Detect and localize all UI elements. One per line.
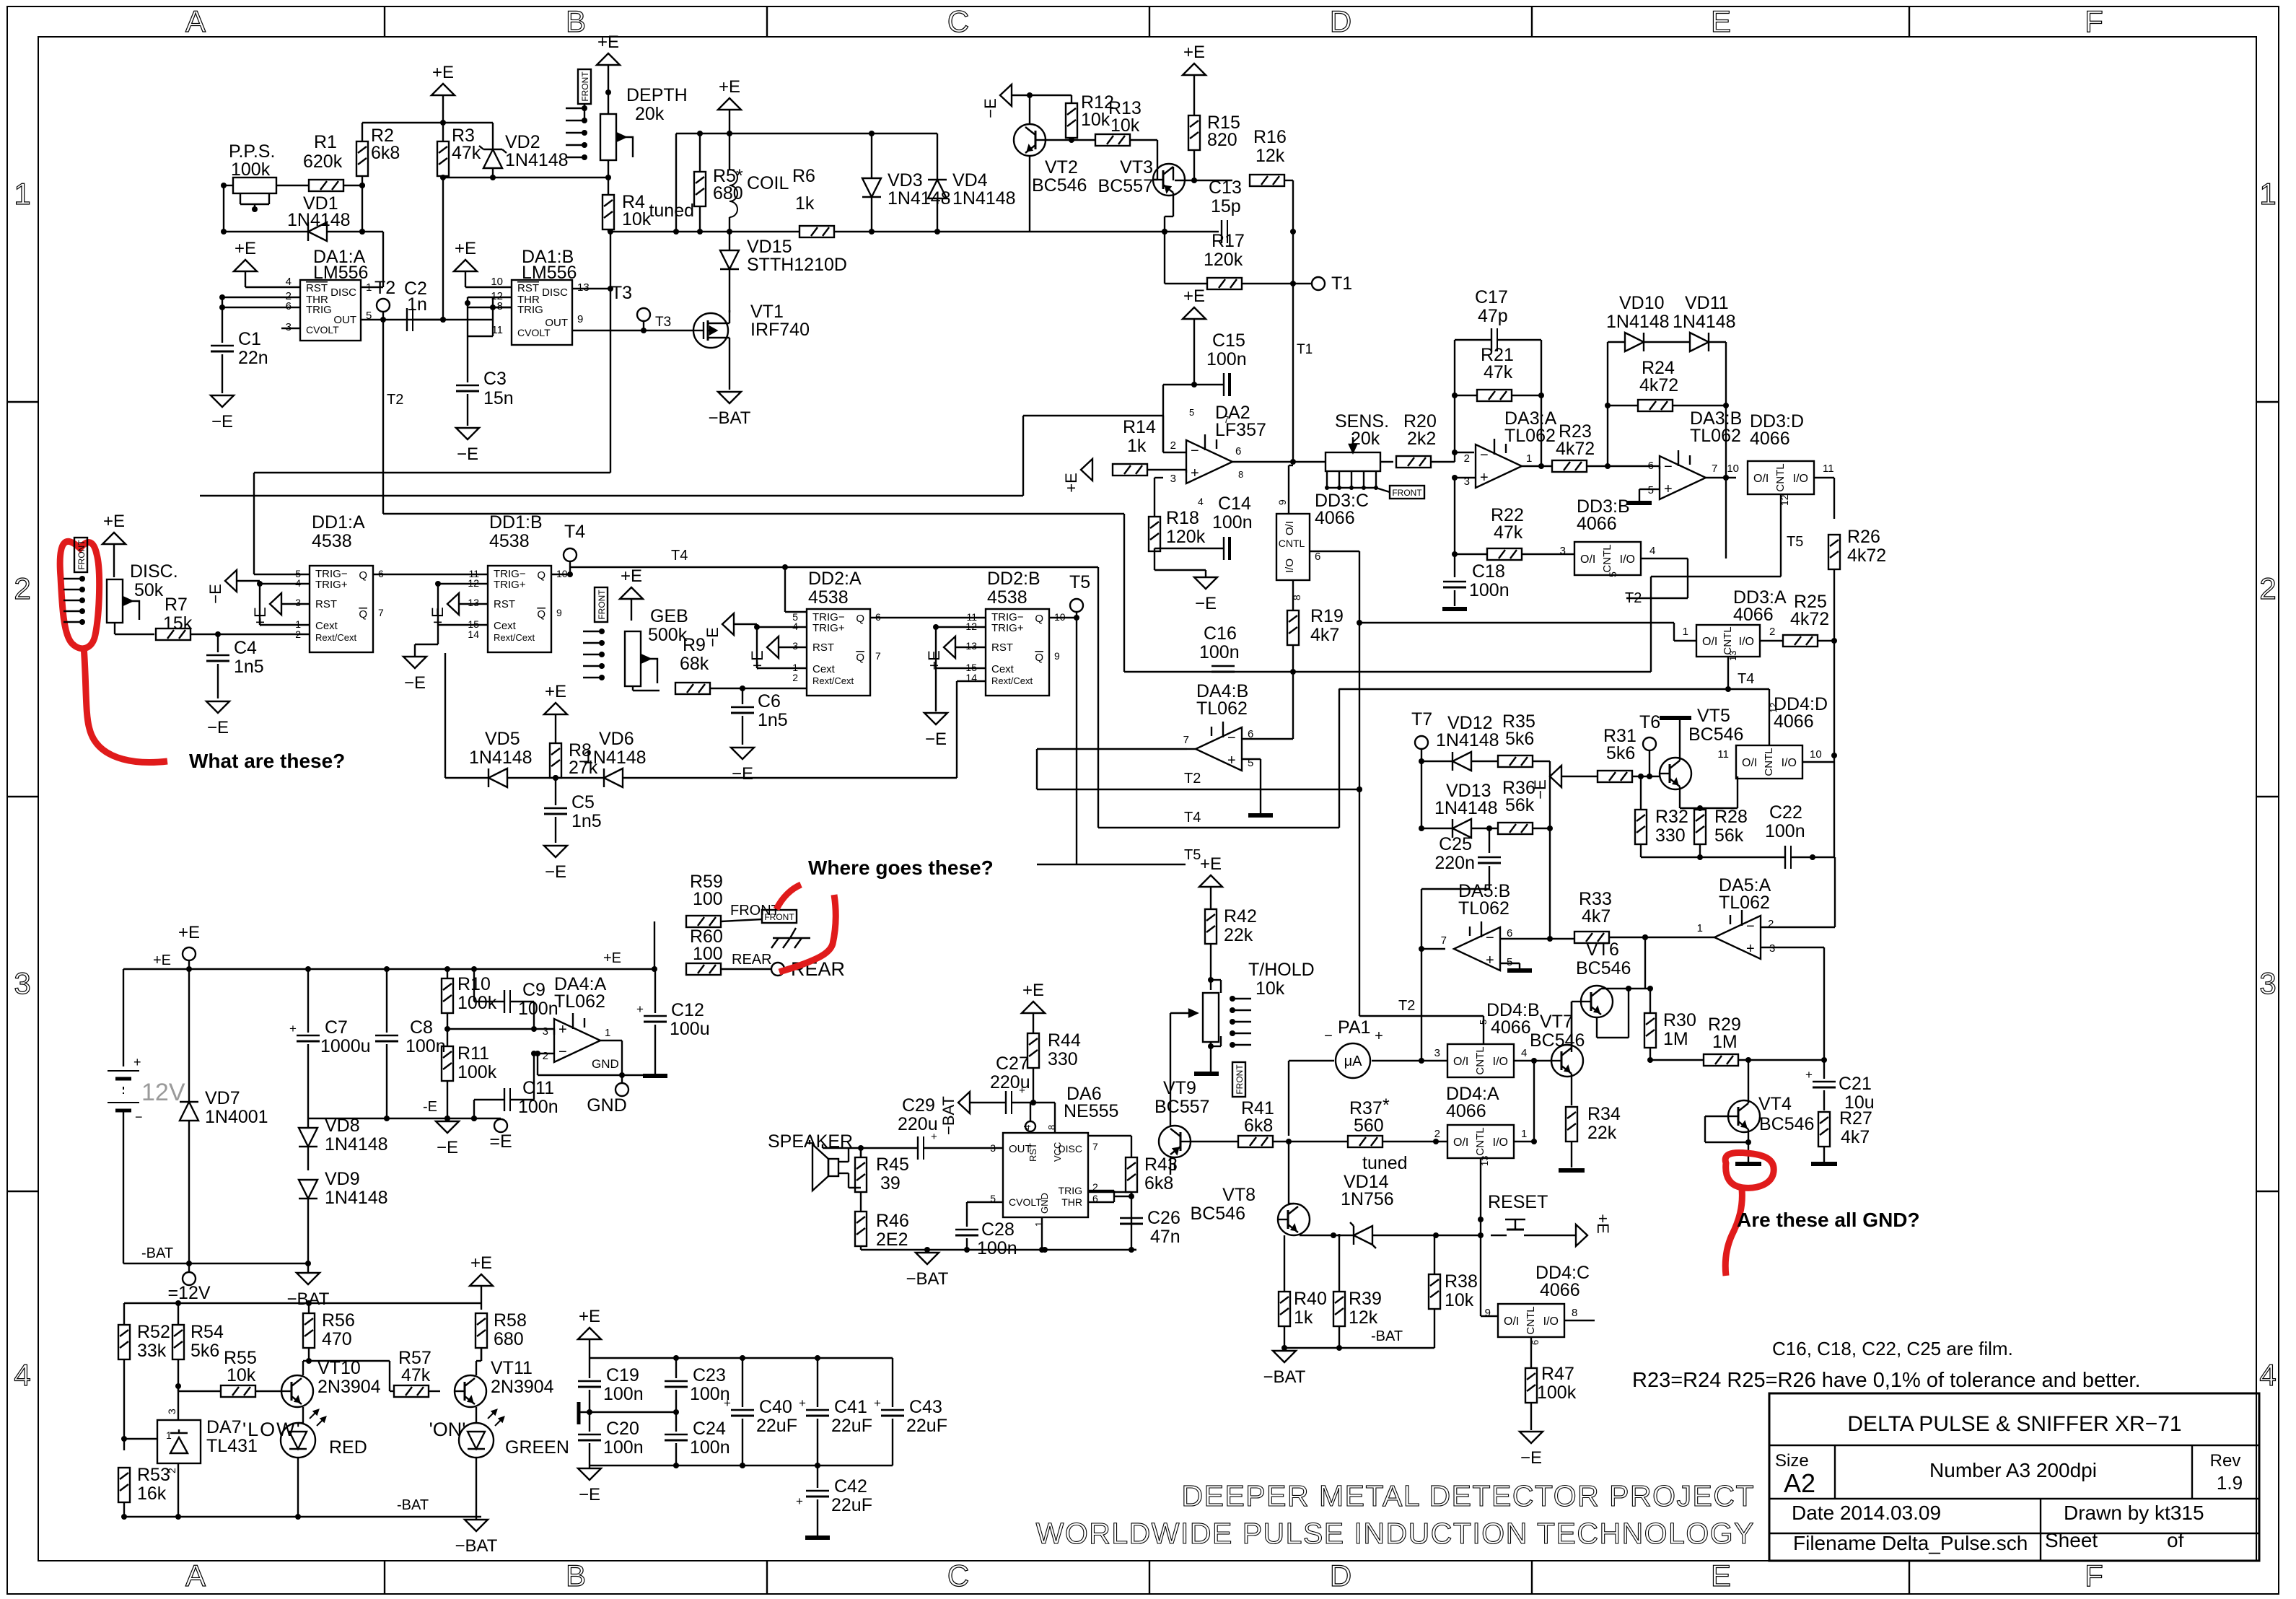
power +E R44 xyxy=(1022,981,1045,1014)
wire xyxy=(1154,551,1155,559)
svg-text:VD15: VD15 xyxy=(747,237,792,257)
power +E DISC xyxy=(102,512,126,577)
svg-text:220n: 220n xyxy=(1434,853,1475,873)
diode VD4 1N4148 xyxy=(928,133,1016,232)
svg-text:R45: R45 xyxy=(876,1155,909,1175)
ground -BAT VT1 xyxy=(709,392,751,428)
capacitor C3 15n xyxy=(456,307,514,426)
label +E wire xyxy=(153,952,171,968)
svg-text:100n: 100n xyxy=(1765,821,1805,841)
connector DISC xyxy=(63,576,85,625)
svg-text:R1: R1 xyxy=(314,132,337,152)
led LOW RED xyxy=(242,1410,325,1458)
opamp DA5:A TL062 xyxy=(1714,875,1771,959)
svg-text:4k7: 4k7 xyxy=(1310,625,1339,645)
wire xyxy=(757,627,807,668)
svg-text:100k: 100k xyxy=(457,1062,497,1082)
power +E R8 xyxy=(544,682,567,743)
transistor VT2 BC546 xyxy=(1014,124,1087,196)
capacitor C28 100n xyxy=(955,1219,1017,1258)
svg-text:THR: THR xyxy=(1061,1196,1082,1208)
svg-text:100n: 100n xyxy=(1206,349,1247,369)
svg-text:100n: 100n xyxy=(406,1036,446,1056)
pins DD4:B xyxy=(1434,1020,1528,1059)
resistor R47 100k xyxy=(1525,1354,1577,1403)
wire DD3C out xyxy=(1310,551,1359,623)
svg-text:7: 7 xyxy=(1712,463,1717,475)
svg-text:47p: 47p xyxy=(1478,306,1508,326)
svg-text:BC546: BC546 xyxy=(1759,1114,1814,1134)
svg-text:Q: Q xyxy=(1035,652,1043,664)
wire T4 long xyxy=(570,548,1098,570)
connector SENS xyxy=(1325,471,1378,490)
speaker SPEAKER xyxy=(768,1131,853,1191)
svg-text:1k: 1k xyxy=(795,193,815,214)
svg-text:R46: R46 xyxy=(876,1211,909,1231)
wire cap rail bottom xyxy=(590,1463,893,1468)
svg-text:10: 10 xyxy=(1810,748,1822,761)
wire DA2 out xyxy=(1232,444,1326,465)
svg-text:BC546: BC546 xyxy=(1032,175,1087,196)
wire +E rail xyxy=(123,966,501,1066)
svg-text:R17: R17 xyxy=(1211,231,1245,251)
svg-text:−E: −E xyxy=(404,673,426,693)
wire spk2 xyxy=(838,1173,861,1188)
wire DA5B out xyxy=(1419,889,1445,952)
svg-text:VT3: VT3 xyxy=(1120,157,1153,178)
resistor R39 12k xyxy=(1333,1234,1382,1328)
svg-text:+E: +E xyxy=(579,1307,600,1326)
resistor R60 100 xyxy=(686,926,723,975)
resistor R5* 680 xyxy=(649,131,743,235)
svg-text:CNTL: CNTL xyxy=(1774,463,1787,491)
svg-text:F: F xyxy=(2085,4,2103,38)
pins DD3:A xyxy=(1683,626,1776,661)
wire xyxy=(1452,475,1476,557)
svg-text:1N4148: 1N4148 xyxy=(583,748,647,768)
IC DA1:B LM556 xyxy=(512,247,577,345)
pins DA1 xyxy=(286,276,372,333)
potentiometer P.P.S. 100k xyxy=(229,141,276,212)
svg-text:1M: 1M xyxy=(1712,1032,1738,1052)
svg-text:68k: 68k xyxy=(680,654,709,674)
svg-text:RESET: RESET xyxy=(1488,1192,1548,1212)
resistor R54 5k6 xyxy=(172,1310,224,1389)
svg-text:47k: 47k xyxy=(401,1365,431,1385)
svg-text:VD11: VD11 xyxy=(1685,293,1729,313)
svg-text:1k: 1k xyxy=(1127,436,1147,456)
wire xyxy=(1571,1142,1572,1168)
svg-text:5: 5 xyxy=(1189,407,1194,418)
IC DD1:A 4538 xyxy=(310,512,373,652)
svg-text:−E: −E xyxy=(457,444,478,464)
wire xyxy=(1587,463,1649,469)
opamp DA4:B TL062 xyxy=(1196,681,1248,771)
wire DA4A xyxy=(534,1029,554,1053)
svg-text:2N3904: 2N3904 xyxy=(317,1377,381,1397)
switch RESET xyxy=(1488,1192,1548,1235)
svg-text:C16, C18, C22, C25 are film.: C16, C18, C22, C25 are film. xyxy=(1772,1338,2013,1359)
svg-text:3: 3 xyxy=(543,1025,548,1038)
potentiometer SENS 20k xyxy=(1326,411,1389,471)
capacitor C9 100n xyxy=(471,966,558,1029)
wire DA2 inputs xyxy=(1148,452,1186,473)
pins DA5:A xyxy=(1697,918,1776,955)
svg-text:330: 330 xyxy=(1048,1049,1078,1069)
svg-text:C26: C26 xyxy=(1147,1208,1180,1228)
svg-text:100n: 100n xyxy=(518,1097,558,1117)
capacitor C11 100n xyxy=(471,1051,558,1121)
label DA3:A xyxy=(1504,408,1557,446)
svg-text:+: + xyxy=(1486,952,1494,968)
svg-text:−: − xyxy=(1227,730,1236,746)
label R26 xyxy=(1847,527,1886,566)
svg-text:RST: RST xyxy=(991,641,1013,654)
svg-text:C16: C16 xyxy=(1204,623,1237,644)
svg-text:Rext/Cext: Rext/Cext xyxy=(812,675,854,686)
red annotation s1 xyxy=(776,885,801,909)
svg-text:DISC: DISC xyxy=(542,286,568,299)
svg-text:+E: +E xyxy=(603,950,621,966)
svg-text:RST: RST xyxy=(315,598,337,610)
wire xyxy=(115,623,154,634)
svg-text:VT8: VT8 xyxy=(1222,1185,1256,1205)
wire xyxy=(676,131,937,232)
resistor R38 10k xyxy=(1429,1235,1478,1348)
label DA7 xyxy=(206,1417,258,1456)
svg-text:1: 1 xyxy=(2259,177,2276,211)
svg-text:3: 3 xyxy=(295,597,301,608)
node T2 xyxy=(374,278,395,320)
svg-text:3: 3 xyxy=(14,966,30,1000)
wire xyxy=(633,686,660,691)
svg-text:DEPTH: DEPTH xyxy=(626,85,688,105)
note tolerance xyxy=(1632,1369,2141,1392)
svg-text:11: 11 xyxy=(1823,463,1834,475)
power +E R42 xyxy=(1199,854,1222,909)
svg-text:BC546: BC546 xyxy=(1191,1204,1245,1224)
resistor R28 56k xyxy=(1694,805,1748,846)
svg-text:BC557: BC557 xyxy=(1098,176,1153,196)
capacitor C16 100n xyxy=(1199,623,1240,672)
svg-text:10: 10 xyxy=(1727,463,1739,475)
wire xyxy=(608,229,1219,235)
wire bottom rail led xyxy=(124,1497,481,1517)
svg-text:5k6: 5k6 xyxy=(1505,729,1534,749)
svg-text:tuned: tuned xyxy=(1362,1153,1408,1173)
svg-text:7: 7 xyxy=(1183,734,1189,746)
svg-text:C43: C43 xyxy=(909,1397,942,1417)
IC DD2:A 4538 xyxy=(807,569,870,696)
svg-text:R38: R38 xyxy=(1445,1271,1478,1292)
front tag SENS xyxy=(1376,486,1424,499)
svg-text:T/HOLD: T/HOLD xyxy=(1248,960,1315,980)
svg-text:Size: Size xyxy=(1775,1451,1809,1471)
svg-text:R39: R39 xyxy=(1349,1289,1382,1309)
svg-text:VT9: VT9 xyxy=(1163,1078,1196,1098)
svg-text:13: 13 xyxy=(965,640,977,652)
svg-text:+: + xyxy=(1746,941,1755,957)
svg-text:VD6: VD6 xyxy=(599,729,634,749)
ground -BAT audio xyxy=(906,1250,949,1289)
svg-text:+E: +E xyxy=(1594,1214,1612,1234)
svg-text:Number A3 200dpi: Number A3 200dpi xyxy=(1929,1459,2097,1481)
svg-text:TL062: TL062 xyxy=(1504,426,1556,446)
capacitor C15 100n sym xyxy=(1194,330,1247,396)
capacitor C27 220u xyxy=(990,1053,1030,1114)
ground -E C3 xyxy=(456,428,479,464)
IC DD1:B 4538 xyxy=(488,512,551,652)
svg-text:C15: C15 xyxy=(1212,330,1245,351)
red annotation text2 xyxy=(1737,1209,1920,1231)
svg-text:DEEPER METAL DETECTOR PROJECT: DEEPER METAL DETECTOR PROJECT xyxy=(1181,1479,1755,1512)
svg-text:+: + xyxy=(558,1022,567,1038)
svg-text:−: − xyxy=(1480,447,1489,463)
svg-text:-BAT: -BAT xyxy=(141,1245,173,1261)
potentiometer DISC 50k xyxy=(107,561,178,623)
resistor R31 5k6 xyxy=(1598,726,1636,782)
svg-text:VT6: VT6 xyxy=(1586,939,1619,960)
svg-text:100n: 100n xyxy=(977,1238,1017,1258)
svg-text:+E: +E xyxy=(455,239,476,258)
svg-text:+E: +E xyxy=(621,566,642,586)
svg-text:100n: 100n xyxy=(1212,512,1253,533)
svg-text:Date 2014.03.09: Date 2014.03.09 xyxy=(1792,1502,1941,1524)
svg-text:−E: −E xyxy=(579,1485,600,1504)
svg-text:4066: 4066 xyxy=(1733,605,1774,625)
ground -E C5 xyxy=(544,846,567,882)
wire xyxy=(858,1145,864,1157)
resistor R57 47k xyxy=(390,1348,440,1397)
resistor R16 12k xyxy=(1250,127,1287,186)
capacitor C19 100n xyxy=(578,1358,644,1412)
wire xyxy=(1191,1141,1238,1142)
svg-text:100k: 100k xyxy=(457,993,497,1013)
wire DD2A trig xyxy=(785,567,807,612)
resistor R23 4k72 xyxy=(1552,421,1595,472)
svg-text:GND: GND xyxy=(592,1057,619,1071)
svg-text:C5: C5 xyxy=(571,792,595,812)
ground -BAT led xyxy=(455,1517,498,1556)
wire bus T5b xyxy=(1037,847,1201,864)
transistor VT4 BC546 xyxy=(1728,1100,1760,1132)
ground C42 xyxy=(805,1536,830,1540)
svg-text:−BAT: −BAT xyxy=(906,1269,949,1289)
wire VT8 down xyxy=(1293,1235,1294,1236)
resistor R20 2k2 xyxy=(1396,456,1431,468)
resistor R53 16k xyxy=(118,1465,170,1520)
diode VD15 STTH1210D xyxy=(720,232,847,312)
label R9 xyxy=(680,635,709,674)
wire xyxy=(608,160,609,195)
svg-text:−: − xyxy=(1324,1028,1333,1044)
svg-text:GREEN: GREEN xyxy=(505,1437,569,1458)
svg-text:2: 2 xyxy=(1464,452,1470,465)
wire PA1 xyxy=(1289,1061,1334,1136)
svg-text:T3: T3 xyxy=(655,315,671,330)
capacitor C2 1n xyxy=(404,279,427,331)
svg-text:Cext: Cext xyxy=(494,620,517,632)
svg-text:16k: 16k xyxy=(137,1484,167,1504)
wire bottom rail audio xyxy=(0,0,1,1)
svg-text:1n: 1n xyxy=(407,294,427,315)
svg-text:+: + xyxy=(799,1396,806,1410)
wire xyxy=(343,183,365,188)
power +E caps xyxy=(578,1307,601,1358)
pins DA6 xyxy=(990,1125,1098,1227)
wire xyxy=(362,120,493,149)
svg-text:6: 6 xyxy=(1235,445,1241,457)
resistor R18 120k xyxy=(1149,478,1163,551)
wire T2 vertical xyxy=(383,320,403,514)
svg-text:−E: −E xyxy=(207,718,229,737)
svg-text:−: − xyxy=(135,1110,143,1124)
power +E xyxy=(431,63,455,123)
svg-text:FRONT: FRONT xyxy=(76,540,87,570)
wire DA7 bottom xyxy=(175,1463,181,1520)
svg-text:TL062: TL062 xyxy=(1458,898,1510,919)
svg-text:2: 2 xyxy=(792,672,798,683)
resistor R19 4k7 xyxy=(1287,606,1344,645)
svg-text:22uF: 22uF xyxy=(831,1495,872,1515)
svg-text:R18: R18 xyxy=(1166,508,1199,528)
front tag GEB xyxy=(595,587,608,622)
wire DA4B xyxy=(1187,672,1293,749)
gnd R34 xyxy=(1559,1168,1585,1173)
inductor COIL xyxy=(727,133,789,235)
svg-text:4: 4 xyxy=(1521,1047,1527,1059)
svg-text:56k: 56k xyxy=(1714,825,1744,846)
svg-text:RST: RST xyxy=(812,641,834,654)
svg-text:R28: R28 xyxy=(1714,807,1748,827)
svg-text:9: 9 xyxy=(1054,650,1060,662)
svg-text:+E: +E xyxy=(1200,854,1222,874)
wire DD4A cntl xyxy=(1478,1158,1484,1222)
svg-text:+: + xyxy=(874,1396,881,1410)
label REAR wire xyxy=(732,952,772,968)
svg-text:I/O: I/O xyxy=(1493,1056,1508,1068)
wire xyxy=(1561,774,1652,779)
svg-text:1N4148: 1N4148 xyxy=(287,210,351,230)
svg-text:T5: T5 xyxy=(1184,847,1201,863)
svg-text:120k: 120k xyxy=(1166,527,1206,547)
svg-text:R40: R40 xyxy=(1294,1289,1327,1309)
svg-text:12k: 12k xyxy=(1349,1307,1378,1328)
svg-text:'LOW': 'LOW' xyxy=(242,1419,302,1440)
svg-text:R52: R52 xyxy=(137,1322,170,1342)
wire spk xyxy=(838,1148,849,1162)
svg-text:C19: C19 xyxy=(606,1365,639,1385)
svg-text:COIL: COIL xyxy=(747,173,789,193)
svg-text:*: * xyxy=(1383,1095,1390,1116)
svg-text:100n: 100n xyxy=(1469,580,1510,600)
svg-text:Drawn by kt315: Drawn by kt315 xyxy=(2064,1502,2204,1524)
wire xyxy=(1431,450,1474,462)
svg-text:C3: C3 xyxy=(483,369,507,389)
power +E batt xyxy=(178,923,200,969)
svg-text:GEB: GEB xyxy=(650,606,688,626)
svg-text:4k72: 4k72 xyxy=(1556,439,1595,459)
svg-text:−: − xyxy=(1191,443,1199,459)
svg-text:I/O: I/O xyxy=(1739,636,1754,648)
red annotation s2 xyxy=(779,895,836,972)
capacitor C29 220u xyxy=(861,1095,1002,1160)
wire DA2 minus from R18 xyxy=(0,0,1,1)
svg-text:2E2: 2E2 xyxy=(876,1230,908,1250)
svg-text:12V: 12V xyxy=(141,1079,185,1106)
svg-text:+E: +E xyxy=(432,63,454,82)
wire xyxy=(1380,461,1393,463)
svg-text:Q: Q xyxy=(359,569,367,582)
svg-text:5: 5 xyxy=(1478,1020,1489,1025)
svg-text:13: 13 xyxy=(577,281,590,294)
potentiometer T/HOLD 10k xyxy=(1203,960,1315,1042)
wire led1b xyxy=(295,1458,301,1520)
capacitor C25 220n xyxy=(1478,825,1501,863)
svg-text:10k: 10k xyxy=(1081,110,1110,130)
wire xyxy=(1130,140,1157,180)
svg-text:−E: −E xyxy=(732,764,753,784)
svg-text:9: 9 xyxy=(577,313,583,325)
wire T2 DD3B xyxy=(1625,577,1688,606)
svg-text:T2: T2 xyxy=(374,278,395,298)
label GREEN xyxy=(505,1437,569,1458)
svg-text:DA7: DA7 xyxy=(206,1417,242,1437)
wire R26 down xyxy=(1831,569,1837,857)
pins DD1:B xyxy=(468,568,567,640)
wire DD3C bottom xyxy=(1292,580,1294,610)
svg-text:120k: 120k xyxy=(1204,250,1243,270)
svg-text:LM556: LM556 xyxy=(522,263,577,283)
svg-text:BC557: BC557 xyxy=(1154,1097,1209,1117)
wire xyxy=(0,0,1,1)
capacitor C12 100u xyxy=(636,969,710,1074)
svg-text:TRIG: TRIG xyxy=(1059,1185,1082,1196)
svg-text:8: 8 xyxy=(1046,1125,1057,1130)
pins DD4:C xyxy=(1485,1307,1578,1345)
pins DD1:A xyxy=(295,568,384,640)
svg-text:C22: C22 xyxy=(1769,802,1802,823)
wire xyxy=(1208,944,1221,1049)
svg-text:Cext: Cext xyxy=(812,663,836,675)
svg-text:T4: T4 xyxy=(1184,810,1201,825)
node T1 xyxy=(1293,273,1352,294)
wire xyxy=(0,0,1,1)
svg-text:R26: R26 xyxy=(1847,527,1880,547)
capacitor C40 22uF xyxy=(724,1358,797,1466)
resistor R35 5k6 xyxy=(1498,711,1535,767)
pins DD3:C xyxy=(1276,499,1320,600)
svg-text:11: 11 xyxy=(1717,748,1729,761)
svg-text:Q: Q xyxy=(856,613,864,625)
power +E GEB xyxy=(620,566,643,621)
svg-text:4538: 4538 xyxy=(489,531,530,551)
svg-text:1: 1 xyxy=(1526,452,1532,465)
wire DA3A out xyxy=(1522,463,1552,469)
red annotation circle2 xyxy=(1725,1153,1774,1188)
svg-text:3: 3 xyxy=(1769,942,1775,955)
svg-text:FRONT: FRONT xyxy=(1392,488,1422,498)
svg-text:E: E xyxy=(1711,4,1731,38)
wire xyxy=(465,297,512,307)
resistor R44 330 xyxy=(1027,1013,1081,1103)
svg-text:−E: −E xyxy=(545,862,566,882)
svg-text:+E: +E xyxy=(178,923,200,942)
svg-text:9: 9 xyxy=(556,607,562,618)
svg-text:C41: C41 xyxy=(834,1397,867,1417)
IC DA7 TL431 xyxy=(157,1420,201,1463)
svg-text:3: 3 xyxy=(2259,966,2276,1000)
